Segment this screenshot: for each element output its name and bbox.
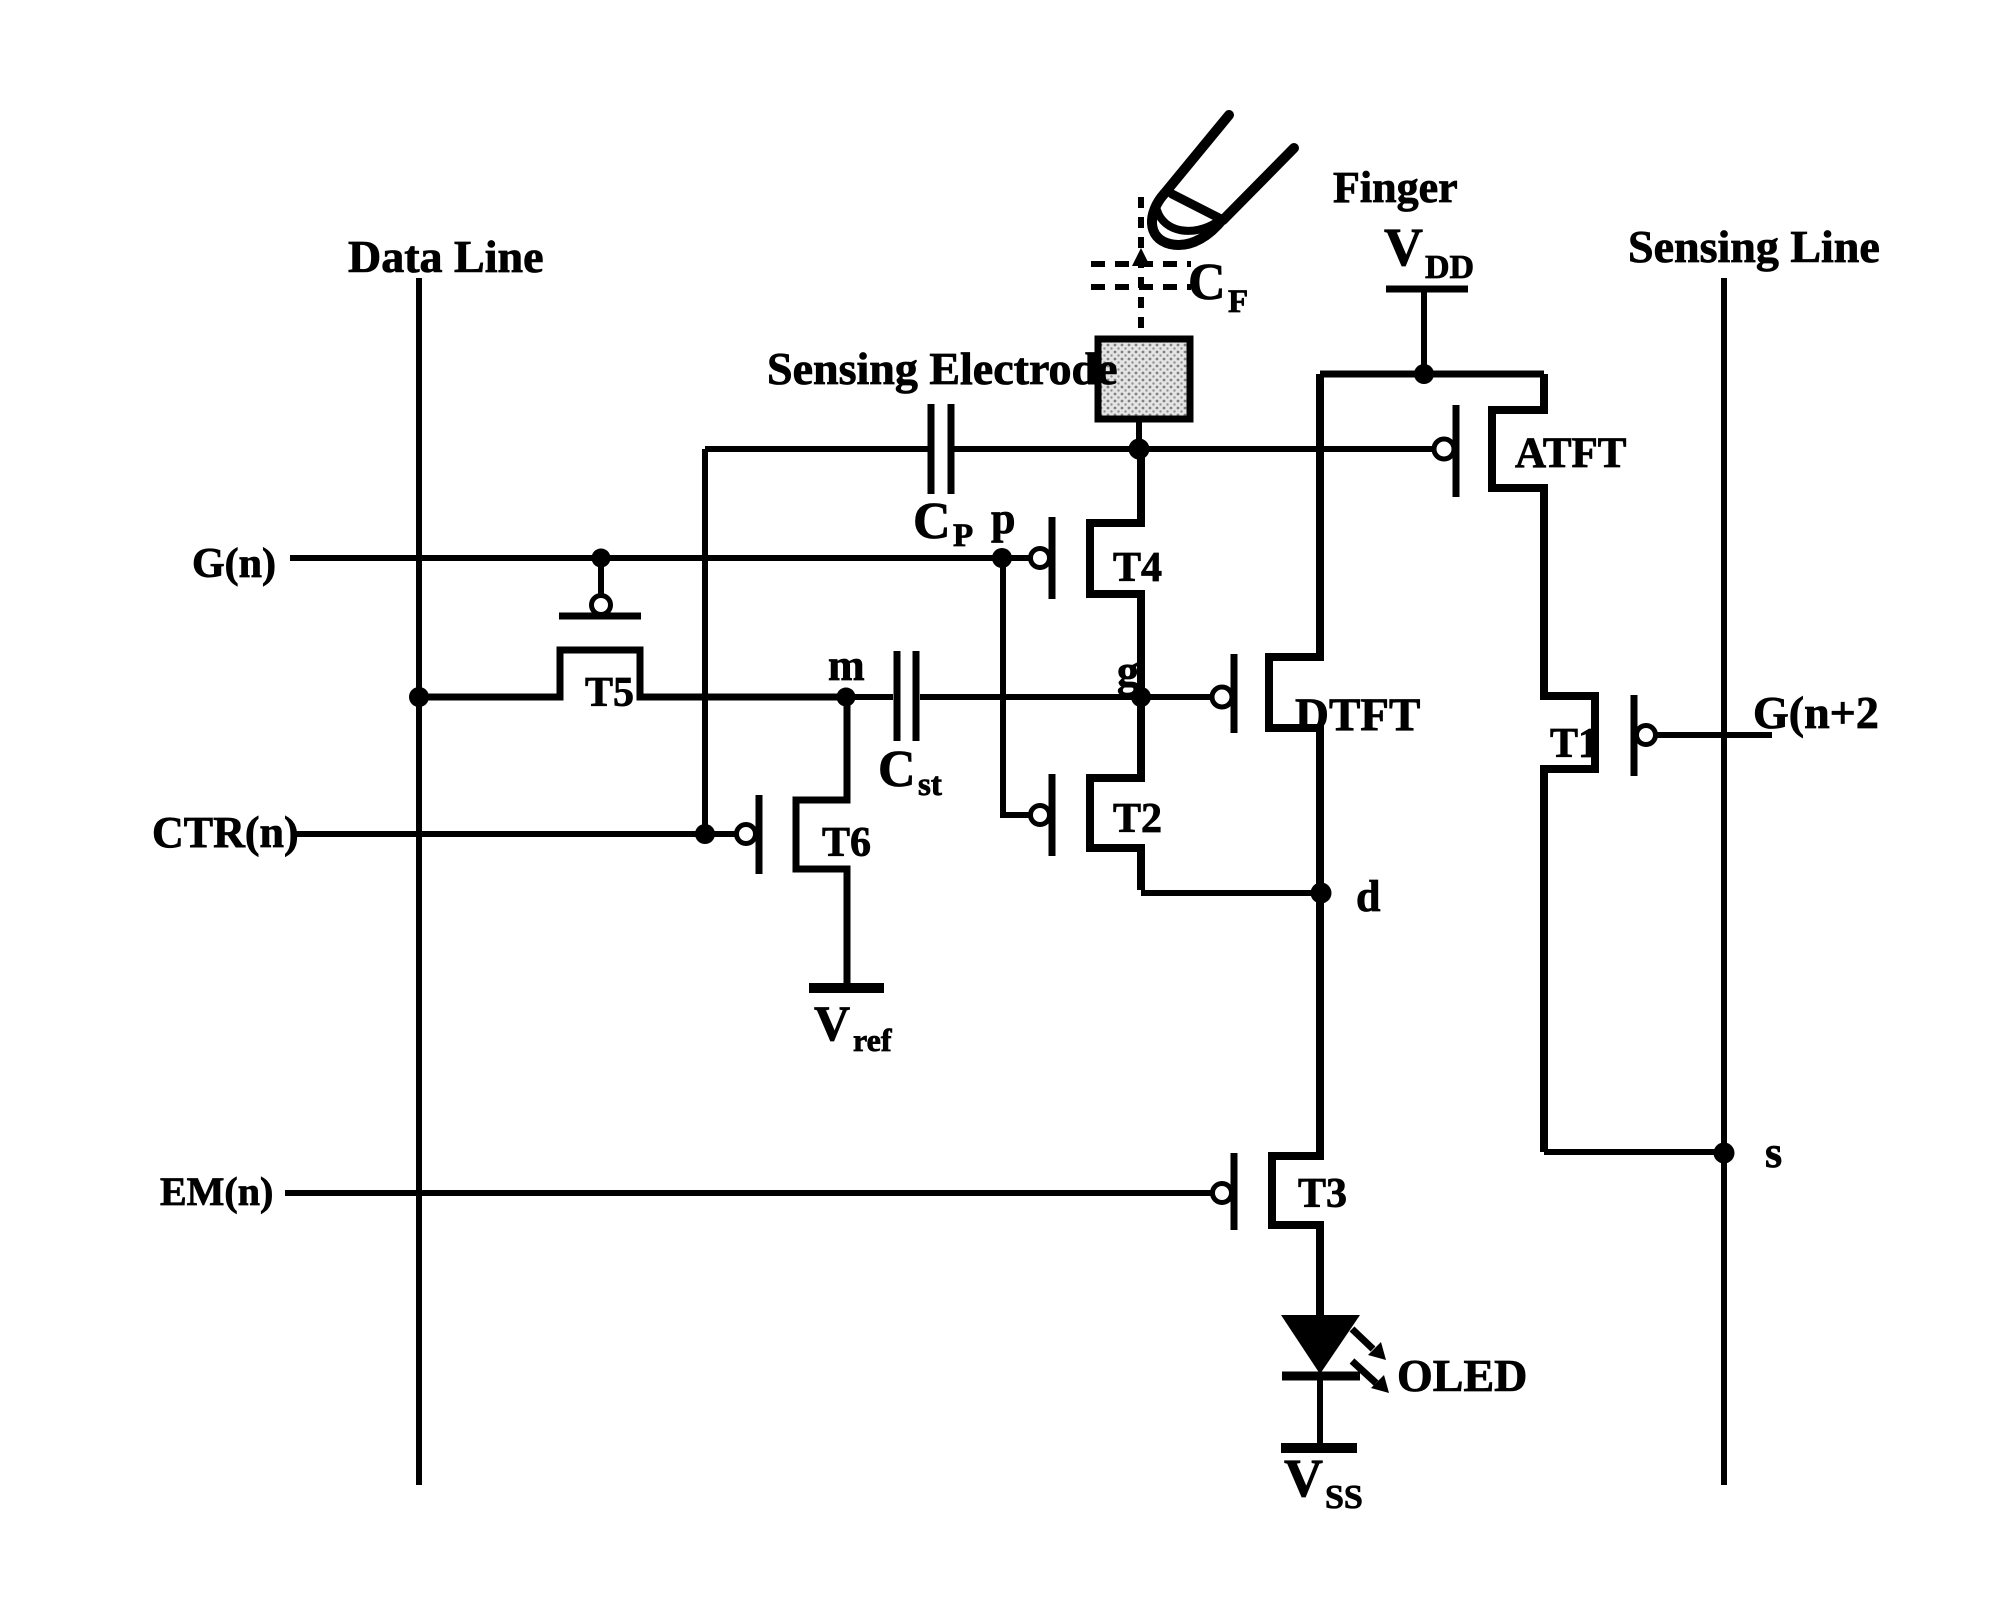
svg-text:F: F <box>1228 284 1248 320</box>
label Finger <box>1333 163 1458 212</box>
node g <box>1131 687 1151 707</box>
label Sensing Line <box>1628 221 1880 272</box>
svg-text:Sensing Line: Sensing Line <box>1628 221 1880 272</box>
label T6 <box>822 820 871 866</box>
label G(n+2 <box>1753 687 1879 738</box>
label Sensing Electrode <box>767 343 1118 394</box>
transistor T2 channel <box>1090 697 1321 893</box>
transistor T1 channel <box>1544 696 1724 1152</box>
transistor T4 channel <box>1090 449 1141 697</box>
svg-text:C: C <box>913 493 951 550</box>
node p <box>992 548 1012 568</box>
transistor ATFT gate <box>1434 405 1456 497</box>
label m <box>828 641 865 690</box>
svg-text:ref: ref <box>853 1022 892 1058</box>
transistor T1 gate <box>1634 695 1772 776</box>
svg-text:OLED: OLED <box>1397 1350 1527 1401</box>
sensing electrode (hatched box) <box>1098 339 1190 451</box>
label g <box>1117 647 1139 696</box>
svg-text:EM(n): EM(n) <box>160 1169 273 1214</box>
svg-text:Data Line: Data Line <box>348 231 544 282</box>
wire: CP-left drop to CTR(n) <box>702 449 708 834</box>
label CP <box>913 493 973 554</box>
transistor T4 gate <box>1031 517 1053 599</box>
capacitor Cst <box>846 651 1212 741</box>
svg-text:DTFT: DTFT <box>1295 689 1420 741</box>
capacitor CF (finger coupling, dashed) <box>1091 197 1191 339</box>
svg-text:V: V <box>1284 1448 1323 1508</box>
svg-text:m: m <box>828 641 865 690</box>
svg-text:d: d <box>1356 872 1380 921</box>
node VDD junction <box>1414 364 1434 384</box>
wire: Data Line rail <box>416 278 422 1485</box>
label EM(n) <box>160 1169 273 1214</box>
svg-text:g: g <box>1117 647 1139 696</box>
svg-text:T6: T6 <box>822 820 871 866</box>
finger drawing <box>1152 115 1294 245</box>
svg-text:p: p <box>991 494 1015 543</box>
transistor T3 channel <box>1272 893 1320 1317</box>
svg-text:Sensing Electrode: Sensing Electrode <box>767 343 1118 394</box>
label CF <box>1188 254 1248 320</box>
label s <box>1765 1128 1782 1177</box>
svg-text:Finger: Finger <box>1333 163 1458 212</box>
node d <box>1311 883 1332 904</box>
wire: CTR(n) row <box>291 831 737 837</box>
wire: p to T2 gate <box>1003 558 1030 815</box>
label d <box>1356 872 1380 921</box>
transistor T5 gate <box>559 558 641 616</box>
svg-text:C: C <box>878 741 916 798</box>
node G(n)/T5 gate <box>592 549 611 568</box>
transistor DTFT channel <box>1269 374 1320 893</box>
power VDD <box>1384 217 1474 374</box>
label T4 <box>1113 545 1162 591</box>
label Data Line <box>348 231 544 282</box>
svg-text:SS: SS <box>1325 1479 1363 1516</box>
svg-text:CTR(n): CTR(n) <box>152 808 299 857</box>
capacitor CP <box>931 404 951 494</box>
wire: G(n) row <box>290 555 1031 561</box>
wire: sensing-electrode net (y=449) <box>705 446 1432 452</box>
svg-text:V: V <box>814 995 850 1051</box>
svg-text:P: P <box>953 518 973 554</box>
label T3 <box>1298 1171 1347 1217</box>
wire: Sensing Line rail <box>1721 278 1727 1485</box>
wire: VDD rail to DTFT/ATFT <box>1320 371 1544 378</box>
svg-text:C: C <box>1188 254 1226 311</box>
svg-text:T5: T5 <box>585 670 634 716</box>
transistor T3 gate <box>1213 1153 1235 1230</box>
svg-text:V: V <box>1384 217 1423 277</box>
label G(n) <box>192 541 276 587</box>
node s <box>1714 1143 1735 1164</box>
node m <box>837 688 856 707</box>
transistor ATFT channel <box>1492 374 1544 700</box>
transistor T2 gate <box>1031 774 1053 856</box>
label Cst <box>878 741 942 803</box>
label T1 <box>1550 721 1599 767</box>
diode OLED <box>1281 1315 1389 1443</box>
label p <box>991 494 1015 543</box>
label ATFT <box>1515 430 1627 477</box>
svg-text:DD: DD <box>1425 249 1474 286</box>
svg-text:G(n+2: G(n+2 <box>1753 687 1879 738</box>
transistor T6 gate <box>737 795 760 874</box>
node CTR(n)/CP junction <box>695 824 715 844</box>
transistor DTFT gate <box>1212 654 1234 733</box>
svg-text:G(n): G(n) <box>192 541 276 587</box>
label DTFT <box>1295 689 1420 741</box>
label OLED <box>1397 1350 1527 1401</box>
terminal Vref <box>809 988 892 1058</box>
label T5 <box>585 670 634 716</box>
wire: EM(n) row <box>285 1190 1212 1196</box>
svg-text:T4: T4 <box>1113 545 1162 591</box>
svg-text:s: s <box>1765 1128 1782 1177</box>
transistor T5 channel <box>419 650 844 697</box>
node sensing electrode / net A <box>1129 439 1150 460</box>
svg-text:ATFT: ATFT <box>1515 430 1627 477</box>
svg-text:T3: T3 <box>1298 1171 1347 1217</box>
label T2 <box>1113 796 1162 842</box>
label CTR(n) <box>152 808 299 857</box>
power VSS <box>1281 1448 1363 1516</box>
svg-text:st: st <box>918 767 942 803</box>
svg-text:T2: T2 <box>1113 796 1162 842</box>
transistor T6 channel <box>796 697 847 983</box>
node data line / T5 <box>409 687 429 707</box>
svg-text:T1: T1 <box>1550 721 1599 767</box>
